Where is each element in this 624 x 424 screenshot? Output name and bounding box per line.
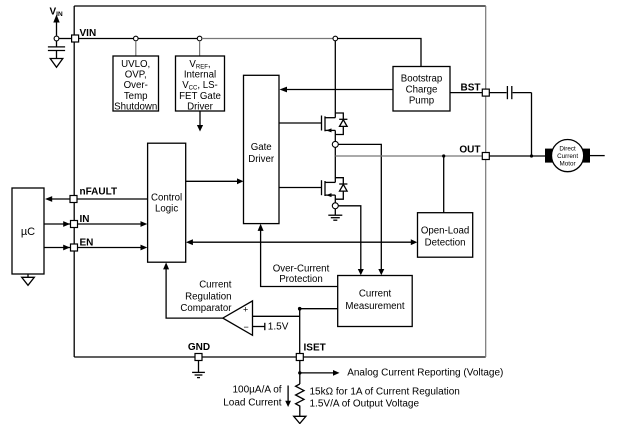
wire node to VIN pin [59, 38, 72, 40]
svg-text:Load Current: Load Current [223, 398, 282, 409]
wire UVLO stub [135, 41, 137, 56]
svg-text:Comparator: Comparator [180, 303, 232, 314]
svg-text:EN: EN [80, 238, 94, 249]
wire VIN rail segment 1 [79, 38, 134, 40]
pin GND [195, 354, 202, 361]
svg-text:OUT: OUT [459, 145, 480, 156]
svg-text:Bootstrap: Bootstrap [401, 74, 442, 85]
capacitor bootstrap [489, 86, 531, 99]
svg-text:Direct: Direct [559, 145, 576, 152]
arrow VREF internal supply output [197, 111, 203, 132]
wire comparator plus input [253, 315, 300, 317]
block Open-Load Detection [418, 213, 473, 258]
block Control Logic [148, 143, 186, 262]
wire nFAULT [45, 196, 148, 202]
resistor R-ISET [296, 384, 304, 416]
chip boundary (device outline) [74, 6, 486, 357]
node tap VREF [197, 36, 202, 41]
svg-text:Temp: Temp [124, 91, 148, 102]
arrow control logic to gate driver [186, 178, 244, 184]
wire bootstrap to gate driver arrow [280, 87, 394, 93]
node VIN input [54, 36, 59, 41]
op-amp current regulation comparator [223, 301, 253, 335]
block microcontroller [12, 188, 44, 274]
wire open-load tap [443, 156, 445, 213]
svg-text:Internal: Internal [184, 70, 216, 81]
svg-text:OVP,: OVP, [125, 70, 147, 81]
wire comparator output to control logic [163, 262, 223, 318]
pin ISET [296, 354, 303, 361]
capacitor C-in [48, 41, 65, 59]
svg-text:FET Gate: FET Gate [179, 91, 221, 102]
wire HS node to current measurement [338, 144, 384, 275]
wire gate driver to LS gate [279, 187, 322, 189]
svg-text:Current: Current [199, 279, 232, 290]
block UVLO OVP Over-Temp Shutdown [113, 56, 159, 112]
wire VIN rail segment 3 [202, 38, 333, 40]
svg-text:Control: Control [151, 192, 182, 203]
ground microcontroller [22, 274, 35, 285]
arrow analog current reporting [300, 370, 340, 376]
svg-text:GND: GND [188, 342, 210, 353]
wire OUT to motor [489, 155, 545, 157]
svg-text:Analog Current Reporting (Volt: Analog Current Reporting (Voltage) [347, 368, 503, 379]
transistor LS-FET [322, 180, 336, 203]
ground LS source [328, 209, 342, 221]
junction OUT / open-load tap [442, 154, 445, 157]
node LS source [332, 203, 338, 209]
svg-text:1.5V/A of Output Voltage: 1.5V/A of Output Voltage [310, 399, 420, 410]
motor DC [545, 140, 590, 172]
pin IN [71, 221, 78, 228]
wire motor right [590, 155, 605, 157]
junction ISET / current measurement [298, 307, 302, 311]
svg-text:100µA/A of: 100µA/A of [232, 385, 281, 396]
wire VIN rail segment 4 to bootstrap [338, 39, 421, 67]
wire EN [44, 245, 147, 251]
wire LS node to current measurement [338, 206, 364, 275]
svg-text:µC: µC [21, 226, 35, 238]
svg-text:−: − [244, 322, 249, 332]
wire gate driver to HS gate [279, 122, 322, 124]
block Bootstrap Charge Pump [393, 67, 450, 112]
ground GND pin [192, 361, 205, 378]
ground (input cap) [50, 59, 63, 68]
node tap UVLO [134, 36, 139, 41]
wire VIN rail segment 2 [138, 38, 197, 40]
block Current Measurement [338, 276, 413, 327]
wire BST to capacitor [450, 92, 482, 94]
wire over-current protection path [258, 224, 338, 287]
label over-current protection [273, 264, 330, 285]
svg-text:Shutdown: Shutdown [114, 101, 157, 112]
svg-text:Charge: Charge [406, 85, 438, 96]
block VREF internal VCC LS-FET gate driver [176, 56, 225, 112]
svg-text:15kΩ for 1A of Current Regulat: 15kΩ for 1A of Current Regulation [310, 386, 460, 397]
pin EN [71, 244, 78, 251]
pin OUT [482, 153, 489, 160]
svg-text:Protection: Protection [279, 274, 323, 285]
svg-text:Measurement: Measurement [345, 301, 405, 312]
svg-text:nFAULT: nFAULT [80, 186, 118, 197]
svg-text:Pump: Pump [409, 96, 434, 107]
arrow to VIN supply [53, 15, 59, 36]
wire ISET below pin [299, 361, 301, 385]
pin nFAULT [70, 196, 77, 203]
svg-text:Logic: Logic [155, 204, 178, 215]
svg-text:BST: BST [461, 82, 481, 93]
wire junction to current measurement [300, 308, 338, 310]
wire comparator minus input [253, 323, 265, 330]
svg-text:Over-: Over- [124, 80, 148, 91]
svg-text:1.5V: 1.5V [268, 321, 289, 332]
pin VIN [72, 35, 79, 42]
svg-text:Driver: Driver [187, 101, 214, 112]
svg-text:UVLO,: UVLO, [121, 59, 150, 70]
wire ISET vertical [299, 309, 301, 354]
ground R-ISET [294, 416, 306, 423]
svg-text:Current: Current [557, 153, 578, 160]
svg-text:IN: IN [80, 214, 90, 225]
wire control logic to open-load detection (double arrow) [186, 239, 417, 245]
diode HS body [335, 113, 347, 135]
node HS source / OUT [332, 141, 338, 147]
svg-text:Open-Load: Open-Load [421, 225, 469, 236]
block Gate Driver [244, 75, 280, 223]
label current regulation comparator [180, 279, 232, 314]
svg-text:+: + [243, 305, 248, 315]
pin BST [482, 89, 489, 96]
svg-text:Detection: Detection [425, 238, 466, 249]
label 100uA/A [223, 385, 282, 409]
junction analog reporting [298, 371, 301, 374]
node tap half-bridge [333, 36, 338, 41]
wire bootstrap cap return to OUT [531, 93, 533, 156]
wire OUT line [335, 155, 482, 157]
svg-text:Current: Current [359, 289, 392, 300]
svg-text:Gate: Gate [251, 142, 272, 153]
diode LS body [335, 178, 347, 200]
junction cap return / OUT [530, 154, 533, 157]
svg-text:Regulation: Regulation [185, 291, 231, 302]
transistor HS-FET [322, 41, 336, 142]
svg-text:Driver: Driver [248, 154, 275, 165]
wire VREF stub [199, 41, 201, 56]
wire node to LS drain [334, 147, 336, 182]
wire IN [44, 221, 147, 227]
arrow load current down [285, 386, 291, 408]
svg-text:Motor: Motor [560, 161, 576, 168]
svg-text:ISET: ISET [304, 342, 326, 353]
svg-text:VIN: VIN [80, 28, 97, 39]
